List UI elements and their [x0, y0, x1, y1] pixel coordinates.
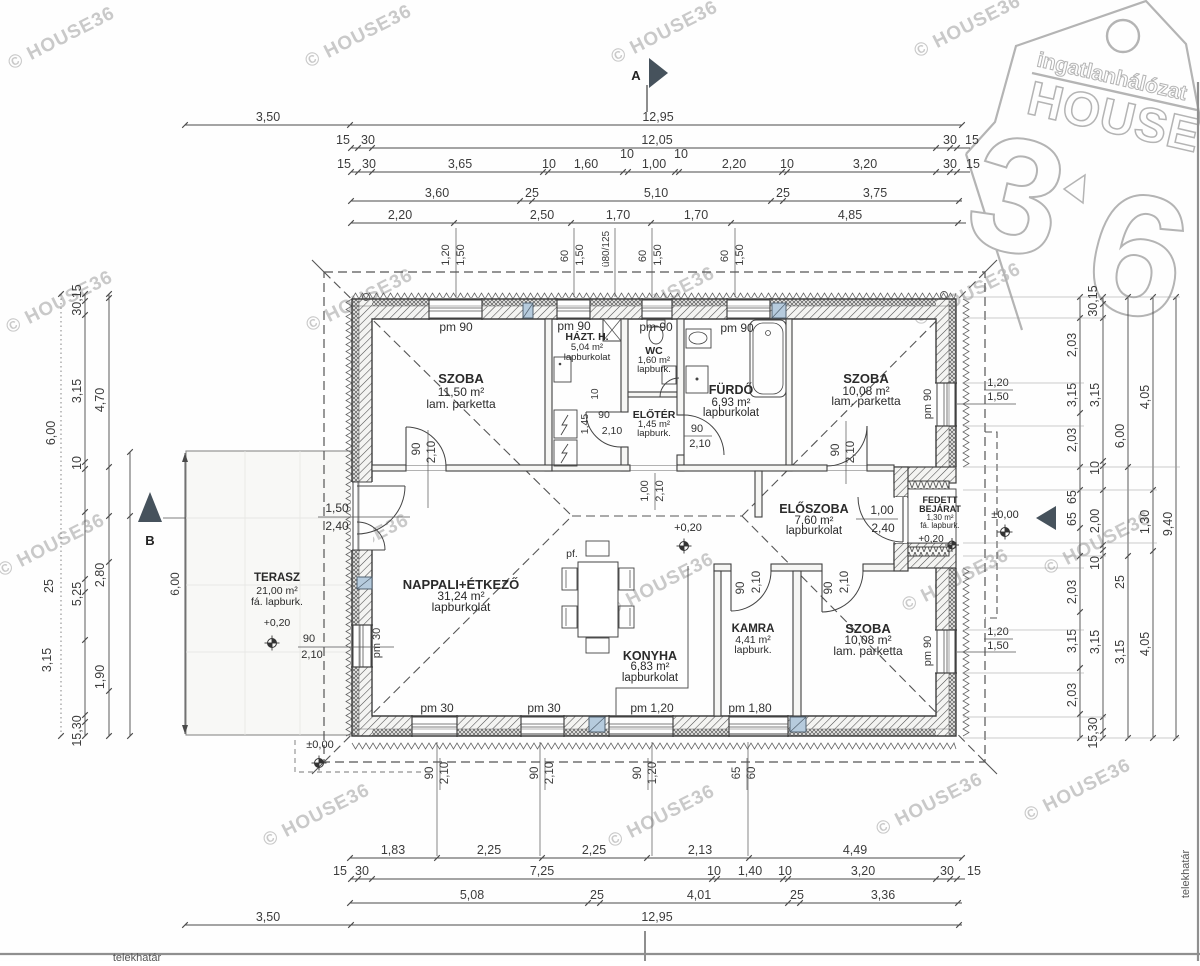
svg-text:30: 30: [355, 864, 369, 878]
svg-text:2,10: 2,10: [751, 571, 763, 593]
door fürdő: [683, 415, 685, 455]
svg-text:90: 90: [529, 767, 541, 780]
door kamra: [730, 571, 732, 611]
svg-text:2,03: 2,03: [1065, 683, 1079, 707]
interior wall C (házt.h/wc-előtér): [621, 319, 628, 412]
svg-text:90: 90: [691, 423, 703, 435]
svg-text:7,25: 7,25: [530, 864, 554, 878]
left dim column 1: [84, 294, 86, 736]
svg-text:30: 30: [943, 133, 957, 147]
svg-text:5,25: 5,25: [70, 582, 84, 606]
svg-text:90: 90: [303, 633, 315, 645]
door házt.h (from előtér): [586, 411, 621, 413]
svg-text:30: 30: [943, 157, 957, 171]
svg-text:30: 30: [940, 864, 954, 878]
svg-text:pm 90: pm 90: [720, 321, 754, 335]
svg-text:10: 10: [590, 388, 601, 400]
svg-text:90: 90: [424, 767, 436, 780]
svg-text:pm 90: pm 90: [639, 320, 673, 334]
dim szoba-left door 90/2,10: [427, 430, 429, 508]
svg-text:lam. parketta: lam. parketta: [833, 644, 903, 658]
interior wall E (wc-előtér/fürdő) segments: [677, 319, 684, 415]
left dim column 0 (dotted): [60, 294, 62, 736]
dim szoba-right door: [845, 421, 847, 484]
svg-text:30: 30: [361, 133, 375, 147]
porch canopy dashed edge: [985, 432, 997, 618]
svg-text:fá. lapburk.: fá. lapburk.: [920, 521, 960, 530]
svg-text:lapburkolat: lapburkolat: [703, 407, 760, 419]
svg-text:1,50: 1,50: [325, 501, 349, 515]
svg-text:10: 10: [674, 147, 688, 161]
insulation/brick layer separation lines: [352, 299, 956, 736]
roof hip dashed lines and ridge: [324, 272, 985, 762]
svg-text:5,10: 5,10: [644, 186, 668, 200]
right dim column 5: [1175, 297, 1177, 738]
svg-text:10: 10: [70, 456, 84, 470]
porch floor area: [908, 489, 956, 543]
svg-text:pm 1,20: pm 1,20: [630, 701, 674, 715]
svg-text:pm 90: pm 90: [439, 320, 473, 334]
svg-text:pm 90: pm 90: [922, 389, 934, 420]
svg-text:10: 10: [1088, 556, 1102, 570]
házt.h washer 1: [554, 410, 577, 438]
svg-text:3,15: 3,15: [1065, 629, 1079, 653]
svg-text:lapburkolat: lapburkolat: [432, 600, 491, 614]
svg-text:lam. parketta: lam. parketta: [426, 397, 496, 411]
svg-text:12,05: 12,05: [641, 133, 672, 147]
wc toilet: [647, 320, 665, 327]
svg-text:90: 90: [830, 444, 842, 457]
door porch/előszoba: [902, 497, 904, 542]
interior wall B (szoba bottom) segments: [372, 465, 406, 471]
extension lines below bottom wall: [436, 742, 438, 856]
svg-text:3,15: 3,15: [1065, 383, 1079, 407]
svg-text:4,01: 4,01: [687, 888, 711, 902]
svg-text:2,10: 2,10: [426, 441, 438, 463]
svg-text:2,13: 2,13: [688, 843, 712, 857]
top dim row D: [351, 200, 962, 202]
svg-text:2,10: 2,10: [839, 571, 851, 593]
svg-text:25: 25: [790, 888, 804, 902]
roof overhang dashed outline: [324, 272, 985, 762]
bathtub: [750, 320, 786, 397]
svg-text:10: 10: [778, 864, 792, 878]
svg-text:2,20: 2,20: [388, 208, 412, 222]
svg-text:pm 90: pm 90: [557, 319, 591, 333]
svg-text:10: 10: [707, 864, 721, 878]
svg-text:1,50: 1,50: [574, 244, 586, 265]
section marker A (top): [646, 85, 648, 112]
terrace width dim 6,00 with arrows: [184, 453, 186, 734]
svg-text:3,15: 3,15: [70, 379, 84, 403]
svg-text:lapburk.: lapburk.: [637, 364, 671, 375]
svg-text:3,20: 3,20: [851, 864, 875, 878]
svg-text:6,00: 6,00: [168, 572, 182, 596]
svg-text:lapburkolat: lapburkolat: [786, 525, 843, 537]
section arrow right: [1036, 506, 1056, 530]
svg-text:90: 90: [735, 582, 747, 595]
fürdő sink: [686, 329, 711, 348]
svg-text:TERASZ: TERASZ: [254, 572, 300, 584]
svg-text:1,50: 1,50: [734, 244, 746, 265]
svg-text:1,20: 1,20: [647, 762, 659, 784]
dim előtér passage 1,00/2,10: [654, 473, 656, 510]
svg-text:12,95: 12,95: [641, 910, 672, 924]
svg-text:2,40: 2,40: [871, 521, 895, 535]
svg-text:2,03: 2,03: [1065, 428, 1079, 452]
interior wall F (fürdő/szoba): [786, 319, 792, 471]
svg-text:25: 25: [1113, 575, 1127, 589]
bottom wall window openings: [412, 715, 457, 737]
svg-text:3,15: 3,15: [1088, 383, 1102, 407]
top dim row C: [351, 171, 970, 173]
svg-text:15: 15: [966, 157, 980, 171]
svg-text:±0,00: ±0,00: [991, 509, 1018, 521]
svg-text:4,05: 4,05: [1138, 385, 1152, 409]
svg-text:90: 90: [632, 767, 644, 780]
svg-text:25: 25: [525, 186, 539, 200]
interior wall D (wc/előtér): [628, 392, 677, 397]
svg-text:2,10: 2,10: [544, 762, 556, 784]
terrace double door: [357, 485, 405, 487]
svg-text:lapburkolat: lapburkolat: [622, 672, 679, 684]
svg-text:90: 90: [411, 443, 423, 456]
svg-text:60: 60: [719, 250, 731, 262]
bottom dim row G: [350, 878, 965, 880]
svg-text:pf.: pf.: [566, 548, 578, 560]
top wall window openings: [429, 298, 482, 320]
svg-text:fá. lapburk.: fá. lapburk.: [251, 596, 303, 608]
bottom dim row H: [350, 902, 962, 904]
svg-text:1,20: 1,20: [987, 626, 1008, 638]
svg-text:30,15: 30,15: [1086, 285, 1100, 316]
svg-text:telekhatár: telekhatár: [1180, 850, 1192, 899]
svg-text:10: 10: [780, 157, 794, 171]
svg-text:2,10: 2,10: [654, 480, 666, 501]
interior wall K (kamra/szoba): [793, 571, 801, 716]
svg-text:15: 15: [336, 133, 350, 147]
exterior wall boundary lines: [352, 299, 956, 736]
interior wall J (konyha/kamra): [714, 571, 721, 716]
svg-text:4,05: 4,05: [1138, 632, 1152, 656]
door szoba-right: [866, 426, 868, 466]
svg-text:pm 30: pm 30: [371, 628, 383, 659]
svg-text:60: 60: [559, 250, 571, 262]
svg-text:2,03: 2,03: [1065, 580, 1079, 604]
top dim row A: 3,50 / 12,95: [185, 124, 962, 126]
top dim row E: [351, 222, 966, 224]
svg-text:+0,20: +0,20: [918, 534, 944, 545]
svg-text:6,00: 6,00: [1113, 424, 1127, 448]
svg-text:1,60: 1,60: [574, 157, 598, 171]
terrace level marker: [268, 639, 277, 648]
door wc: [660, 378, 679, 397]
porch lower wall block: [894, 543, 956, 568]
svg-text:5,08: 5,08: [460, 888, 484, 902]
HOUSE36 ingatlanhálózat logo: [966, 1, 1200, 330]
svg-text:3,50: 3,50: [256, 910, 280, 924]
svg-text:10: 10: [620, 147, 634, 161]
házt.h cabinet: [554, 357, 571, 382]
svg-text:3,65: 3,65: [448, 157, 472, 171]
svg-text:4,85: 4,85: [838, 208, 862, 222]
porch door opening in west porch wall: [895, 497, 907, 543]
interior wall H (stub): [755, 471, 762, 517]
svg-text:1,00: 1,00: [870, 503, 894, 517]
porch upper thin wall (xxx hatch): [908, 481, 949, 489]
section marker B (left): [138, 492, 162, 522]
svg-text:10: 10: [1088, 461, 1102, 475]
dims below bottom wall windows: [439, 758, 441, 790]
svg-text:ü80/125: ü80/125: [601, 230, 612, 267]
svg-text:15: 15: [333, 864, 347, 878]
svg-text:3,60: 3,60: [425, 186, 449, 200]
porch upper wall block: [894, 467, 956, 483]
dining table: [578, 562, 618, 637]
exterior wall: bottom: [352, 716, 956, 729]
svg-text:lapburk.: lapburk.: [734, 644, 771, 656]
right dim column 1: [1079, 297, 1081, 738]
svg-text:4,49: 4,49: [843, 843, 867, 857]
svg-text:FÜRDŐ: FÜRDŐ: [709, 382, 754, 397]
svg-text:3,75: 3,75: [863, 186, 887, 200]
top dim row B: 15/30/12,05/30/15: [351, 147, 970, 149]
interior wall I (előszoba/kamra-szoba) segments: [714, 564, 731, 571]
exterior wall: left: [352, 299, 359, 736]
svg-text:1,70: 1,70: [684, 208, 708, 222]
svg-text:±0,00: ±0,00: [306, 739, 333, 751]
svg-text:15: 15: [337, 157, 351, 171]
ventilation shaft: [603, 319, 621, 341]
left dim column 3: [129, 452, 131, 736]
svg-text:2,10: 2,10: [602, 425, 623, 437]
left wall door + window openings: [351, 482, 373, 550]
bottom dim row I: [185, 924, 962, 926]
svg-text:1,00: 1,00: [642, 157, 666, 171]
right extension lines: [963, 296, 1180, 298]
telekhatár bottom property line: [0, 953, 1200, 955]
svg-text:1,20: 1,20: [440, 244, 452, 265]
svg-text:2,25: 2,25: [477, 843, 501, 857]
interior wall G (hall top) segments: [552, 465, 630, 471]
svg-text:1,50: 1,50: [652, 244, 664, 265]
svg-text:ELŐSZOBA: ELŐSZOBA: [779, 501, 848, 516]
svg-text:2,00: 2,00: [1088, 509, 1102, 533]
svg-text:65: 65: [1065, 512, 1079, 526]
svg-text:1,50: 1,50: [987, 391, 1008, 403]
entrance step dashed outline bottom-left: [295, 740, 432, 772]
exterior wall: right (two segments around porch): [936, 299, 949, 467]
right dim column 2: [1102, 297, 1104, 738]
svg-text:pm 90: pm 90: [922, 636, 934, 667]
svg-text:B: B: [145, 533, 154, 548]
svg-text:2,20: 2,20: [722, 157, 746, 171]
svg-text:3,20: 3,20: [853, 157, 877, 171]
terrace TERASZ outline: [186, 451, 352, 735]
svg-text:1,83: 1,83: [381, 843, 405, 857]
svg-text:3,36: 3,36: [871, 888, 895, 902]
svg-text:10: 10: [542, 157, 556, 171]
svg-text:+0,20: +0,20: [264, 617, 291, 629]
svg-text:90: 90: [823, 582, 835, 595]
svg-text:telekhatár: telekhatár: [113, 952, 162, 961]
svg-text:pm 30: pm 30: [527, 701, 561, 715]
svg-text:lam. parketta: lam. parketta: [831, 394, 901, 408]
svg-text:60: 60: [637, 250, 649, 262]
exterior wall: top (insulation + brick layers): [352, 299, 956, 306]
svg-text:65: 65: [731, 767, 743, 780]
svg-text:15,30: 15,30: [70, 715, 84, 746]
svg-text:2,10: 2,10: [689, 438, 710, 450]
svg-text:pm 1,80: pm 1,80: [728, 701, 772, 715]
downpipe circles: [363, 294, 370, 301]
svg-text:1,40: 1,40: [738, 864, 762, 878]
fürdő washing machine: [686, 366, 708, 393]
svg-text:2,03: 2,03: [1065, 333, 1079, 357]
svg-text:15: 15: [965, 133, 979, 147]
svg-text:1,30: 1,30: [1138, 510, 1152, 534]
kitchen zone delimiter: [616, 566, 688, 716]
svg-text:lapburk.: lapburk.: [637, 428, 671, 439]
svg-text:2,40: 2,40: [325, 519, 349, 533]
svg-text:3,15: 3,15: [40, 648, 54, 672]
svg-text:30: 30: [362, 157, 376, 171]
svg-text:2,25: 2,25: [582, 843, 606, 857]
svg-text:25: 25: [42, 579, 56, 593]
svg-text:25: 25: [776, 186, 790, 200]
interior wall A (szoba/házt.h): [545, 319, 552, 471]
svg-text:12,95: 12,95: [642, 110, 673, 124]
svg-text:+0,20: +0,20: [674, 522, 702, 534]
section marker A (bottom line): [644, 931, 646, 961]
door szoba-bottom: [821, 571, 823, 612]
svg-text:6,00: 6,00: [44, 421, 58, 445]
porch lower thin wall (xxx hatch): [908, 547, 949, 556]
chairs: [562, 568, 577, 590]
svg-text:4,70: 4,70: [93, 388, 107, 412]
svg-text:1,50: 1,50: [455, 244, 467, 265]
svg-text:A: A: [631, 68, 641, 83]
svg-text:9,40: 9,40: [1161, 512, 1175, 536]
svg-text:lapburkolat: lapburkolat: [564, 352, 611, 363]
left dim column 2: [108, 294, 110, 736]
right wall window openings: [935, 383, 957, 426]
svg-text:2,80: 2,80: [93, 563, 107, 587]
thresholds across openings: [406, 466, 867, 471]
svg-text:pm 30: pm 30: [420, 701, 454, 715]
svg-text:1,00: 1,00: [639, 480, 651, 501]
svg-text:2,50: 2,50: [530, 208, 554, 222]
svg-text:2,10: 2,10: [845, 441, 857, 463]
házt.h washer 2: [554, 440, 577, 466]
right dim column 3: [1127, 297, 1129, 738]
right dim column 4: [1152, 297, 1154, 738]
svg-text:3,15: 3,15: [1088, 630, 1102, 654]
svg-text:90: 90: [598, 409, 610, 421]
svg-text:15,30: 15,30: [1086, 717, 1100, 748]
door szoba-left: [405, 427, 407, 466]
svg-text:25: 25: [590, 888, 604, 902]
svg-text:3,15: 3,15: [1113, 640, 1127, 664]
svg-text:2,10: 2,10: [439, 762, 451, 784]
svg-text:3,50: 3,50: [256, 110, 280, 124]
blue wall elements (lintels): [523, 303, 533, 318]
wc small basin: [662, 366, 676, 384]
svg-text:1,50: 1,50: [987, 640, 1008, 652]
svg-text:1,45: 1,45: [579, 414, 591, 435]
svg-text:1,70: 1,70: [606, 208, 630, 222]
extension lines above top wall: [455, 228, 457, 297]
svg-text:SZOBA: SZOBA: [438, 371, 484, 386]
roof corner diagonal marks: [312, 260, 997, 774]
telekhatár right property line: [1197, 82, 1199, 961]
bottom dim row F: [350, 857, 962, 859]
svg-text:65: 65: [1065, 490, 1079, 504]
svg-text:2,10: 2,10: [301, 649, 322, 661]
svg-text:15: 15: [967, 864, 981, 878]
svg-text:1,90: 1,90: [93, 665, 107, 689]
svg-text:30,15: 30,15: [70, 284, 84, 315]
